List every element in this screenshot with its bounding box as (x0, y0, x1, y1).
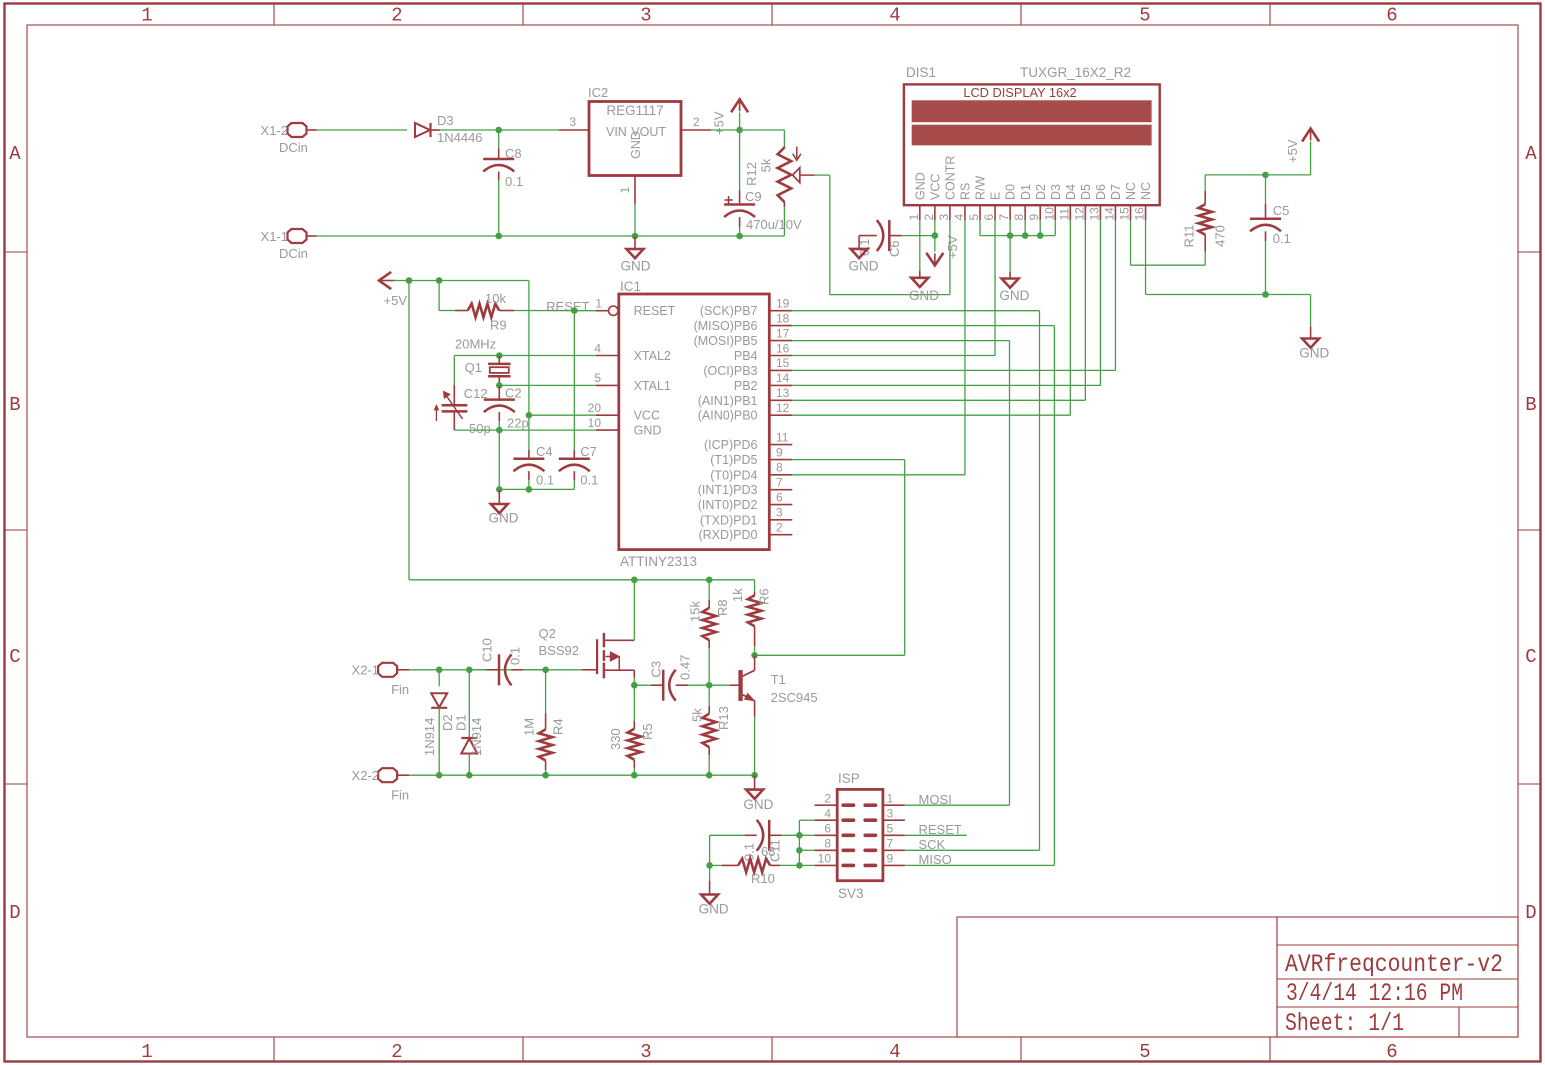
svg-text:12: 12 (776, 401, 790, 415)
svg-text:4: 4 (889, 5, 900, 27)
svg-text:X2-1: X2-1 (352, 663, 379, 678)
svg-text:DIS1: DIS1 (906, 65, 936, 80)
svg-text:16: 16 (776, 341, 790, 355)
svg-text:LCD DISPLAY 16x2: LCD DISPLAY 16x2 (963, 85, 1076, 100)
svg-text:C5: C5 (1273, 203, 1290, 218)
svg-text:C7: C7 (580, 444, 597, 459)
svg-text:22p: 22p (507, 416, 529, 431)
svg-text:R13: R13 (716, 706, 731, 730)
svg-text:X2-2: X2-2 (352, 768, 379, 783)
svg-text:(T0)PD4: (T0)PD4 (710, 468, 757, 482)
svg-text:1: 1 (887, 791, 894, 805)
svg-text:8: 8 (776, 461, 783, 475)
svg-text:(OCI)PB3: (OCI)PB3 (703, 364, 757, 378)
svg-text:D1: D1 (1019, 184, 1033, 200)
svg-text:D3: D3 (1049, 184, 1063, 200)
svg-text:D5: D5 (1079, 184, 1093, 200)
svg-text:GND: GND (913, 172, 927, 200)
svg-text:15k: 15k (687, 601, 702, 622)
svg-text:5: 5 (887, 822, 894, 836)
svg-text:RESET: RESET (919, 822, 962, 837)
svg-text:470u/10V: 470u/10V (746, 217, 802, 232)
svg-text:GND: GND (621, 258, 651, 273)
svg-text:1k: 1k (730, 588, 745, 602)
svg-text:GND: GND (909, 288, 939, 303)
svg-text:4: 4 (952, 214, 966, 221)
svg-text:1: 1 (141, 5, 152, 27)
svg-text:2: 2 (776, 521, 783, 535)
svg-text:20MHz: 20MHz (455, 337, 496, 352)
svg-text:MOSI: MOSI (919, 792, 952, 807)
svg-text:8: 8 (1012, 214, 1026, 221)
svg-text:2SC945: 2SC945 (771, 690, 818, 705)
svg-text:6: 6 (824, 822, 831, 836)
svg-text:Q1: Q1 (465, 360, 482, 375)
svg-text:RS: RS (959, 183, 973, 200)
svg-text:GND: GND (489, 510, 519, 525)
svg-text:VIN: VIN (606, 125, 627, 139)
svg-text:330: 330 (608, 728, 623, 750)
svg-text:3: 3 (776, 506, 783, 520)
svg-text:3: 3 (887, 806, 894, 820)
svg-text:C: C (1525, 646, 1536, 668)
svg-text:1M: 1M (522, 718, 537, 736)
svg-text:Fin: Fin (391, 682, 409, 697)
svg-text:5: 5 (594, 371, 601, 385)
svg-text:3/4/14 12:16 PM: 3/4/14 12:16 PM (1286, 979, 1463, 1008)
svg-text:D4: D4 (1064, 184, 1078, 200)
svg-text:Q2: Q2 (539, 626, 556, 641)
svg-text:D: D (1525, 902, 1536, 924)
svg-text:PB2: PB2 (734, 379, 758, 393)
svg-text:R/W: R/W (974, 176, 988, 201)
svg-text:6: 6 (776, 490, 783, 504)
svg-text:C2: C2 (505, 386, 522, 401)
svg-text:5: 5 (1139, 5, 1150, 27)
svg-text:0.1: 0.1 (1273, 231, 1291, 246)
svg-text:50p: 50p (469, 421, 491, 436)
svg-text:15: 15 (1118, 207, 1132, 221)
svg-text:(INT0)PD2: (INT0)PD2 (698, 498, 758, 512)
svg-text:RESET: RESET (546, 299, 589, 314)
svg-text:R6: R6 (756, 588, 771, 605)
svg-text:GND: GND (634, 424, 662, 438)
svg-text:X1-1: X1-1 (261, 229, 288, 244)
svg-text:C12: C12 (464, 386, 488, 401)
svg-text:470: 470 (1213, 225, 1228, 247)
svg-text:REG1117: REG1117 (606, 103, 663, 118)
svg-text:18: 18 (776, 311, 790, 325)
svg-text:X1-2: X1-2 (261, 123, 288, 138)
svg-text:6: 6 (982, 214, 996, 221)
svg-text:NC: NC (1139, 182, 1153, 200)
svg-text:C3: C3 (649, 661, 664, 678)
svg-text:GND: GND (999, 288, 1029, 303)
svg-text:2: 2 (391, 5, 402, 27)
svg-text:C8: C8 (505, 146, 522, 161)
svg-text:5: 5 (967, 214, 981, 221)
svg-text:(MOSI)PB5: (MOSI)PB5 (694, 334, 758, 348)
svg-text:19: 19 (776, 297, 790, 311)
svg-text:R11: R11 (1182, 225, 1197, 248)
svg-text:GND: GND (1299, 345, 1329, 360)
svg-text:A: A (1525, 143, 1537, 165)
svg-text:(INT1)PD3: (INT1)PD3 (698, 483, 758, 497)
svg-text:(ICP)PD6: (ICP)PD6 (704, 438, 758, 452)
svg-text:1N914: 1N914 (422, 718, 437, 756)
svg-text:TUXGR_16X2_R2: TUXGR_16X2_R2 (1020, 65, 1131, 80)
svg-text:C: C (9, 646, 20, 668)
svg-text:11: 11 (776, 430, 789, 444)
svg-text:4: 4 (594, 341, 601, 355)
svg-text:BSS92: BSS92 (539, 643, 579, 658)
svg-text:13: 13 (776, 386, 790, 400)
svg-text:14: 14 (1102, 207, 1116, 221)
svg-text:C6: C6 (887, 240, 902, 257)
svg-text:D0: D0 (1004, 184, 1018, 200)
svg-text:GND: GND (699, 902, 729, 917)
svg-text:NC: NC (1124, 182, 1138, 200)
svg-text:(SCK)PB7: (SCK)PB7 (700, 304, 758, 318)
svg-text:D: D (9, 902, 20, 924)
svg-text:+5V: +5V (1285, 139, 1300, 163)
svg-text:XTAL1: XTAL1 (634, 379, 671, 393)
svg-text:VCC: VCC (634, 409, 660, 423)
svg-text:6: 6 (1386, 1041, 1397, 1063)
svg-text:(AIN0)PB0: (AIN0)PB0 (698, 409, 758, 423)
svg-text:0.1: 0.1 (580, 473, 598, 488)
svg-text:C9: C9 (745, 189, 762, 204)
svg-text:Sheet: 1/1: Sheet: 1/1 (1285, 1009, 1404, 1038)
svg-text:C10: C10 (480, 638, 495, 662)
svg-text:+5V: +5V (712, 111, 727, 135)
svg-text:68: 68 (761, 844, 775, 859)
svg-text:10: 10 (818, 852, 832, 866)
svg-text:1: 1 (907, 214, 921, 221)
svg-text:5k: 5k (690, 708, 705, 722)
svg-text:MISO: MISO (919, 852, 952, 867)
svg-text:1: 1 (618, 186, 632, 193)
svg-text:B: B (9, 394, 20, 416)
svg-text:1N4446: 1N4446 (437, 130, 483, 145)
svg-text:GND: GND (629, 131, 643, 159)
svg-text:SV3: SV3 (838, 886, 864, 901)
svg-text:12: 12 (1072, 207, 1086, 221)
svg-text:+5V: +5V (945, 235, 960, 259)
svg-text:ATTINY2313: ATTINY2313 (620, 554, 697, 569)
svg-text:5: 5 (1139, 1041, 1150, 1063)
svg-text:GND: GND (849, 258, 879, 273)
svg-text:AVRfreqcounter-v2: AVRfreqcounter-v2 (1285, 950, 1503, 979)
svg-text:D3: D3 (437, 113, 454, 128)
svg-text:10: 10 (588, 416, 602, 430)
svg-text:2: 2 (693, 115, 700, 129)
svg-text:(T1)PD5: (T1)PD5 (710, 453, 757, 467)
svg-text:DCin: DCin (279, 246, 308, 261)
svg-text:2: 2 (391, 1041, 402, 1063)
svg-text:9: 9 (887, 852, 894, 866)
svg-text:3: 3 (640, 5, 651, 27)
svg-text:SCK: SCK (919, 837, 946, 852)
svg-text:CONTR: CONTR (944, 156, 958, 200)
svg-text:5k: 5k (759, 158, 774, 172)
svg-text:17: 17 (776, 326, 790, 340)
svg-text:7: 7 (997, 214, 1011, 221)
svg-text:1N914: 1N914 (469, 718, 484, 756)
svg-text:9: 9 (776, 445, 783, 459)
svg-text:D1: D1 (453, 714, 468, 731)
svg-text:0.1: 0.1 (505, 174, 523, 189)
svg-text:7: 7 (776, 476, 783, 490)
svg-text:(RXD)PD0: (RXD)PD0 (698, 528, 757, 542)
svg-text:R12: R12 (744, 162, 759, 186)
svg-text:T1: T1 (771, 672, 786, 687)
svg-text:IC2: IC2 (588, 85, 608, 100)
svg-text:10k: 10k (485, 291, 506, 306)
svg-text:13: 13 (1087, 207, 1101, 221)
svg-text:4: 4 (824, 806, 831, 820)
svg-text:E: E (989, 192, 1003, 200)
svg-text:6: 6 (1386, 5, 1397, 27)
svg-text:20: 20 (588, 401, 602, 415)
svg-text:A: A (9, 143, 21, 165)
svg-text:11: 11 (1057, 208, 1071, 221)
svg-text:D7: D7 (1109, 184, 1123, 200)
svg-text:+5V: +5V (384, 293, 408, 308)
svg-text:IC1: IC1 (620, 279, 641, 294)
svg-text:(TXD)PD1: (TXD)PD1 (700, 513, 758, 527)
svg-text:1: 1 (141, 1041, 152, 1063)
svg-text:RESET: RESET (634, 304, 676, 318)
svg-text:0.1: 0.1 (508, 647, 523, 665)
svg-text:B: B (1525, 394, 1536, 416)
svg-text:15: 15 (776, 356, 790, 370)
svg-text:XTAL2: XTAL2 (634, 349, 671, 363)
svg-text:R5: R5 (640, 723, 655, 740)
svg-text:4: 4 (889, 1041, 900, 1063)
svg-text:1: 1 (595, 297, 602, 311)
svg-text:R4: R4 (551, 718, 566, 735)
svg-text:(MISO)PB6: (MISO)PB6 (694, 319, 758, 333)
svg-text:2: 2 (824, 791, 831, 805)
svg-text:R9: R9 (490, 318, 507, 333)
svg-text:0.1: 0.1 (536, 473, 554, 488)
svg-text:7: 7 (887, 837, 894, 851)
svg-text:0.47: 0.47 (678, 655, 693, 680)
svg-text:(AIN1)PB1: (AIN1)PB1 (698, 394, 758, 408)
svg-text:9: 9 (1027, 214, 1041, 221)
svg-text:3: 3 (937, 214, 951, 221)
svg-text:8: 8 (824, 837, 831, 851)
svg-text:R10: R10 (751, 871, 775, 886)
svg-text:DCin: DCin (279, 140, 308, 155)
svg-text:D6: D6 (1094, 184, 1108, 200)
svg-text:3: 3 (569, 115, 576, 129)
svg-text:16: 16 (1133, 207, 1147, 221)
svg-text:ISP: ISP (838, 771, 860, 786)
svg-text:D2: D2 (1034, 184, 1048, 200)
svg-text:3: 3 (640, 1041, 651, 1063)
svg-text:VCC: VCC (928, 174, 942, 200)
svg-text:2: 2 (922, 214, 936, 221)
svg-text:Fin: Fin (391, 787, 409, 802)
svg-text:R8: R8 (715, 599, 730, 616)
svg-text:10: 10 (1042, 207, 1056, 221)
svg-text:C4: C4 (536, 444, 553, 459)
svg-text:GND: GND (743, 797, 773, 812)
svg-text:14: 14 (776, 371, 790, 385)
svg-text:PB4: PB4 (734, 349, 758, 363)
